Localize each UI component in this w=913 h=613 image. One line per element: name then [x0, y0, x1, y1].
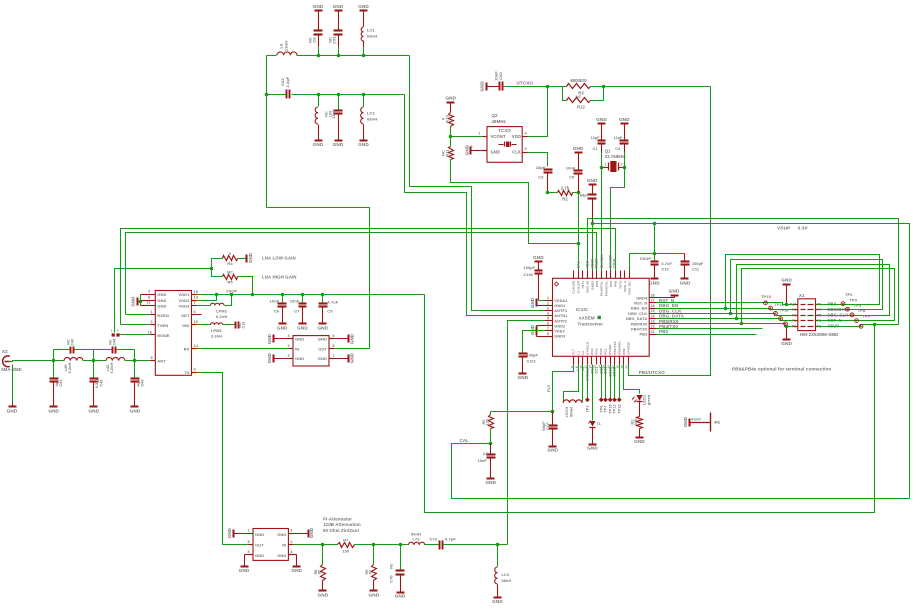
pin stubs boxes: [151, 137, 528, 555]
test point TP10: [608, 365, 613, 414]
svg-text:1: 1: [547, 296, 549, 300]
pin 3 TCXO: [525, 147, 527, 151]
ground R4: [247, 252, 253, 263]
svg-text:GND: GND: [669, 289, 680, 294]
svg-text:P0: P0: [715, 420, 721, 425]
svg-text:LPM2: LPM2: [216, 308, 228, 313]
wire rail2 right seg: [292, 94, 405, 96]
pin 1 TCXO: [479, 132, 481, 136]
pin P10 X1: [790, 303, 797, 307]
svg-text:IC1IC: IC1IC: [576, 307, 589, 312]
svg-text:GND: GND: [649, 280, 660, 285]
capacitor C101: [519, 353, 539, 373]
svg-text:AXSEM: AXSEM: [579, 316, 595, 321]
capacitor C6: [269, 295, 286, 324]
junction rail1 x338: [337, 54, 341, 58]
wire X2 shield gnd: [12, 365, 14, 407]
svg-text:RX: RX: [184, 347, 190, 352]
svg-text:12k: 12k: [485, 418, 489, 425]
label LNA HIGH GAIN: [262, 275, 297, 280]
svg-text:green: green: [647, 394, 651, 405]
svg-text:C100: C100: [524, 273, 533, 277]
wire LED feed: [624, 365, 640, 394]
attenuator box U-ATT: [253, 529, 288, 561]
svg-text:1: 1: [151, 310, 153, 314]
svg-text:SYSCLK: SYSCLK: [585, 341, 589, 355]
svg-text:GND: GND: [267, 333, 272, 344]
test point TP16: [774, 308, 789, 315]
svg-text:C41: C41: [59, 379, 63, 386]
junction C70 top: [399, 543, 403, 547]
svg-text:TP7: TP7: [604, 405, 608, 412]
svg-text:3: 3: [525, 147, 527, 151]
svg-text:GND: GND: [369, 593, 380, 598]
resistor R8: [314, 545, 326, 591]
svg-text:PB2/UTCXO: PB2/UTCXO: [639, 370, 666, 375]
svg-text:GND: GND: [318, 593, 329, 598]
inductor L40: [64, 357, 83, 373]
label Q1: [605, 149, 611, 154]
ground X1 top: [781, 278, 792, 305]
wire C6 to rail1: [318, 47, 320, 56]
svg-text:MODE: MODE: [157, 333, 170, 338]
label optional note: [732, 366, 831, 371]
capacitor C44 NC: [109, 339, 117, 354]
op-amp IC1 box: [553, 278, 650, 356]
IC1 top pins: [572, 271, 632, 297]
wire loop 1: [726, 255, 880, 309]
ground C7: [297, 324, 308, 331]
svg-text:6800E/0: 6800E/0: [570, 78, 587, 83]
label net DBG_CLK: [659, 308, 682, 313]
svg-text:PB4/TX0: PB4/TX0: [631, 328, 647, 332]
resistor R11 NC: [441, 137, 454, 160]
junction loop 4: [740, 322, 744, 326]
svg-text:Transceiver: Transceiver: [578, 321, 604, 326]
svg-text:R5: R5: [227, 279, 233, 284]
svg-text:9: 9: [151, 356, 153, 360]
label net PB5/RX0: [659, 319, 679, 324]
wire R11 to CAL column: [451, 160, 578, 244]
svg-text:GND: GND: [130, 409, 141, 414]
capacitor C73: [429, 536, 456, 549]
svg-text:CLK32N: CLK32N: [600, 254, 604, 268]
resistor R10: [441, 103, 454, 137]
svg-text:DBG_CLK: DBG_CLK: [628, 312, 647, 316]
wire UTCXO east to PB2 riser: [604, 86, 711, 88]
wire left vertical x267 lower: [266, 95, 268, 208]
ground top of C51: [333, 4, 344, 11]
svg-text:IN: IN: [295, 346, 299, 351]
svg-text:150: 150: [342, 549, 350, 554]
capacitor C60: [487, 71, 504, 91]
wire rail2 left seg: [267, 94, 286, 96]
svg-text:TP9: TP9: [863, 314, 870, 318]
svg-text:CAL: CAL: [460, 438, 470, 443]
junction VCONT: [449, 135, 453, 139]
label net VDB2 rotated: [590, 259, 594, 268]
label net L2 bottom: [581, 367, 585, 371]
svg-text:GND: GND: [587, 446, 598, 451]
svg-text:R12: R12: [577, 105, 586, 110]
svg-text:6: 6: [547, 322, 549, 326]
svg-text:GND: GND: [634, 439, 645, 444]
LED LED1: [632, 394, 651, 405]
svg-text:VDD_A: VDD_A: [623, 280, 627, 292]
svg-text:GND: GND: [333, 142, 344, 147]
svg-text:6.2nH: 6.2nH: [68, 362, 72, 373]
resistor R7: [323, 537, 374, 553]
svg-text:OUT: OUT: [318, 346, 327, 351]
ground filter pin3: [267, 352, 293, 363]
capacitor C2: [580, 185, 597, 224]
junction loop 1: [724, 307, 728, 311]
ground UTCXO cap: [479, 81, 486, 92]
svg-text:GND: GND: [317, 325, 328, 330]
svg-text:PC2: PC2: [599, 348, 603, 354]
svg-text:GND: GND: [680, 280, 691, 285]
svg-text:6.2nH: 6.2nH: [216, 314, 227, 319]
label net DBG_CLK X1: [828, 313, 849, 318]
svg-text:TST2: TST2: [618, 281, 622, 289]
ground top of 68nH: [358, 4, 369, 11]
pin 4 TCXO: [525, 132, 528, 136]
svg-text:CLK16N: CLK16N: [572, 280, 576, 293]
wire loop 4: [742, 269, 895, 324]
label net CAL rotated: [576, 261, 580, 268]
svg-text:13nH: 13nH: [284, 41, 289, 51]
svg-text:GND: GND: [227, 527, 232, 538]
capacitor C1 12pF: [591, 124, 606, 153]
svg-text:FLT: FLT: [572, 349, 576, 355]
svg-text:DBG_EN: DBG_EN: [631, 307, 648, 311]
pin 6 LNA: [194, 310, 196, 314]
wire xtal left col: [601, 153, 603, 168]
wire loop 3: [737, 265, 890, 319]
junction VSUP node: [653, 252, 657, 256]
svg-text:L73: L73: [412, 537, 420, 542]
svg-text:GND: GND: [7, 409, 18, 414]
wire rail VSUP A: [588, 219, 899, 325]
svg-text:PB1/TX1: PB1/TX1: [613, 341, 617, 354]
svg-text:82: 82: [318, 570, 322, 574]
capacitor C41: [50, 361, 64, 407]
svg-text:80nH: 80nH: [570, 407, 574, 417]
svg-text:PC4: PC4: [590, 348, 594, 354]
svg-text:GND: GND: [547, 448, 558, 453]
ground C70: [395, 593, 406, 599]
junction LNA gnd: [139, 300, 143, 304]
wire VDD2 to VSUP: [192, 295, 217, 301]
wire RXEN to LNA: [126, 314, 156, 316]
ground T1: [587, 445, 598, 451]
label net SYSCLK bottom: [586, 366, 590, 381]
label 32.768kHz: [605, 154, 626, 159]
test point TP11: [612, 365, 617, 414]
svg-text:NC: NC: [227, 269, 233, 274]
capacitor C9: [319, 295, 339, 324]
svg-text:10nF: 10nF: [269, 298, 279, 303]
junction RF x135: [133, 359, 137, 363]
pin 8 att: [248, 540, 250, 544]
label PI-Attenuator: [323, 517, 352, 522]
ground filter pin1: [329, 352, 355, 363]
svg-text:GND: GND: [530, 324, 535, 335]
wire C73 to node: [443, 544, 498, 546]
junction VSUP x322.8: [321, 293, 325, 297]
svg-text:4: 4: [288, 334, 290, 338]
ground above C100: [533, 255, 544, 262]
svg-text:TP11: TP11: [613, 404, 617, 413]
label net DBG_DATA: [659, 314, 685, 319]
svg-text:GND: GND: [479, 81, 484, 92]
svg-text:NC: NC: [576, 94, 582, 99]
svg-text:LNA HIGH GAIN: LNA HIGH GAIN: [262, 275, 297, 280]
svg-text:4.7pF: 4.7pF: [445, 536, 456, 541]
wire VSUP rail: [192, 294, 425, 296]
crystal Q1: [602, 161, 625, 172]
junction FLT node: [551, 410, 555, 414]
svg-text:6.2nH: 6.2nH: [110, 362, 114, 373]
svg-text:2: 2: [151, 320, 153, 324]
resistor R2: [548, 186, 579, 202]
pin DET stub: [192, 314, 202, 316]
svg-text:C9: C9: [327, 308, 333, 313]
wire DBG_CLK to X1: [657, 314, 794, 316]
svg-text:PB3: PB3: [659, 329, 668, 334]
label PB2/UTCXO: [639, 370, 666, 375]
svg-text:C101: C101: [527, 360, 536, 364]
svg-text:PC1: PC1: [604, 348, 608, 354]
svg-text:GND: GND: [619, 117, 630, 122]
svg-text:16: 16: [148, 330, 152, 334]
svg-text:TP15: TP15: [761, 294, 772, 299]
test point TP6: [599, 365, 604, 413]
svg-text:50 Ohm Zin/Zout: 50 Ohm Zin/Zout: [323, 528, 360, 533]
svg-text:10nF: 10nF: [478, 459, 488, 463]
junction CAL: [489, 442, 493, 446]
junction VSUP x252.5: [251, 293, 255, 297]
svg-text:24: 24: [651, 314, 655, 318]
capacitor C6: [308, 11, 323, 47]
svg-text:GND: GND: [349, 333, 354, 344]
pin P5 X1: [817, 314, 822, 318]
pin 2 LNA: [151, 320, 153, 324]
wire UTCXO to R3: [548, 86, 563, 88]
svg-text:LPM1: LPM1: [211, 328, 223, 333]
wire CAL column to IC: [578, 193, 580, 271]
wire VSUP node: [630, 254, 685, 271]
resistor R1: [630, 402, 642, 438]
svg-text:GND: GND: [781, 341, 792, 346]
junction RF x93.75: [92, 359, 96, 363]
svg-text:RXEN: RXEN: [595, 258, 599, 268]
svg-text:VDD3: VDD3: [178, 303, 190, 308]
svg-text:3: 3: [290, 528, 292, 532]
svg-text:GND: GND: [587, 178, 598, 183]
svg-text:21: 21: [651, 330, 655, 334]
resistor R9: [365, 545, 377, 591]
svg-text:GND: GND: [781, 278, 792, 283]
svg-text:4.7uF: 4.7uF: [662, 262, 673, 266]
svg-text:PA5/XTAL: PA5/XTAL: [604, 281, 608, 296]
pin P9 X1: [817, 303, 822, 307]
svg-text:R4: R4: [227, 261, 233, 266]
capacitor C-IND NC: [236, 322, 246, 329]
svg-text:GND2: GND2: [554, 324, 565, 328]
ground att pin5: [239, 550, 253, 573]
svg-text:68nH: 68nH: [367, 34, 377, 39]
wire X1 VSUP row: [818, 325, 899, 327]
junction rail1 x318: [317, 54, 321, 58]
svg-text:GND: GND: [318, 356, 327, 361]
svg-text:10nF: 10nF: [566, 166, 576, 171]
svg-text:18pF: 18pF: [536, 165, 546, 170]
capacitor C5: [566, 153, 583, 193]
svg-text:GND5: GND5: [590, 281, 594, 290]
wire pin7 to C101: [523, 331, 546, 353]
svg-text:VDD_IO: VDD_IO: [586, 280, 590, 293]
svg-text:1: 1: [248, 528, 250, 532]
svg-text:C12: C12: [242, 322, 246, 329]
svg-text:82: 82: [369, 570, 373, 574]
pin 16 LNA: [148, 330, 152, 334]
capacitor C62: [280, 76, 290, 98]
svg-text:2.2pF: 2.2pF: [285, 76, 290, 87]
svg-text:GND: GND: [333, 4, 344, 9]
svg-text:P8: P8: [792, 308, 797, 312]
pin P4 X1: [792, 319, 797, 323]
svg-text:GND: GND: [157, 303, 166, 308]
label X1: [799, 293, 805, 298]
svg-text:C51: C51: [332, 36, 337, 44]
label 50 Ohm Zin/Zout: [323, 528, 360, 533]
junction rail2 x338: [337, 93, 341, 97]
inductor LC3: [495, 545, 512, 598]
svg-text:GND: GND: [573, 146, 584, 151]
inductor LC1: [361, 11, 377, 49]
svg-text:C4: C4: [615, 147, 621, 151]
svg-text:ANTN1: ANTN1: [554, 314, 567, 318]
svg-text:GND: GND: [48, 409, 59, 414]
svg-text:DET: DET: [181, 313, 190, 318]
svg-text:23: 23: [651, 320, 655, 324]
wire L73 to C73: [425, 544, 439, 546]
label net RXEN rotated: [595, 258, 599, 268]
junction X1 top gnd: [785, 303, 789, 307]
svg-text:22: 22: [651, 325, 655, 329]
svg-text:R11: R11: [444, 149, 449, 157]
svg-text:2: 2: [547, 301, 549, 305]
svg-text:GND: GND: [464, 144, 469, 155]
wire TCXO pin4 to UTCXO: [523, 87, 548, 137]
svg-text:GND: GND: [358, 4, 369, 9]
test point TP1: [585, 365, 590, 413]
junction VSUP x302.5: [301, 293, 305, 297]
wire RX to filter: [192, 348, 293, 350]
svg-text:0: 0: [229, 251, 232, 256]
ground above R10: [445, 95, 456, 102]
label net DCSB bottom: [608, 366, 612, 376]
svg-text:14: 14: [194, 344, 199, 348]
svg-text:RXEN: RXEN: [157, 313, 169, 318]
junction RF x53.7: [52, 359, 56, 363]
svg-text:GND: GND: [131, 296, 136, 307]
svg-text:GND: GND: [295, 337, 304, 342]
connector X1: [794, 299, 820, 331]
svg-text:C73: C73: [429, 536, 437, 541]
label CAL: [460, 438, 470, 443]
pin P6 X1: [792, 314, 797, 318]
pin 2 filter: [288, 344, 290, 348]
label VSUP node: [640, 256, 652, 261]
svg-text:5: 5: [547, 317, 549, 321]
capacitor CLF: [542, 412, 558, 447]
svg-text:100pF: 100pF: [524, 266, 536, 270]
wire RF top path 3: [94, 349, 113, 351]
label net DC3 bottom: [595, 366, 599, 373]
wire UTCXO: [504, 86, 548, 88]
wire RF to ANT: [125, 360, 156, 362]
svg-text:GND: GND: [248, 252, 253, 263]
svg-text:PB2: PB2: [622, 348, 626, 354]
inductor LPM2: [192, 295, 232, 319]
svg-text:GND3: GND3: [554, 335, 565, 339]
ground R8: [318, 591, 329, 598]
svg-text:TXEN: TXEN: [157, 323, 168, 328]
wire RST_N to X1: [657, 303, 794, 305]
label net DC4 bottom: [590, 366, 594, 373]
svg-text:12: 12: [147, 301, 151, 305]
svg-text:5: 5: [333, 344, 335, 348]
svg-text:GND: GND: [255, 553, 264, 558]
svg-text:GND: GND: [313, 4, 324, 9]
ground below LC2: [358, 141, 369, 148]
wire DBG_EN to X1: [657, 309, 794, 310]
pin 9 LNA: [151, 356, 153, 360]
svg-text:GND: GND: [313, 142, 324, 147]
label net DBSB bottom: [613, 366, 617, 376]
wire FLT to CLF/R6: [491, 411, 553, 413]
pin 3 LNA: [194, 368, 196, 372]
junction railB start: [591, 222, 595, 226]
wire VSUP riser: [654, 224, 656, 254]
wire VCONT to TCXO pin1: [451, 136, 487, 138]
svg-text:GND: GND: [267, 352, 272, 363]
svg-text:X1: X1: [799, 293, 805, 298]
svg-text:12pF: 12pF: [591, 136, 600, 140]
capacitor C70 NC: [390, 545, 405, 593]
capacitor C10: [651, 254, 673, 279]
capacitor C7: [290, 295, 307, 324]
junction VSUP x282.2: [281, 293, 285, 297]
pin P2 X1: [792, 325, 797, 329]
junction rail2 x363.5: [362, 93, 366, 97]
test point TP3: [846, 298, 858, 312]
test point TP15: [761, 294, 772, 305]
svg-text:PB5/RX0: PB5/RX0: [631, 322, 648, 326]
svg-text:VDB: VDB: [586, 260, 590, 268]
svg-text:GND: GND: [297, 325, 308, 330]
inductor L42: [106, 357, 125, 373]
wire PB5/RX0 to X1: [657, 324, 794, 327]
resistor R6: [482, 412, 494, 444]
label LNA LOW GAIN: [262, 255, 296, 260]
junction X1 bottom gnd: [785, 325, 789, 329]
svg-text:LC1: LC1: [367, 28, 376, 33]
svg-text:FLT: FLT: [546, 384, 551, 392]
wire PB3 stub: [657, 334, 757, 336]
